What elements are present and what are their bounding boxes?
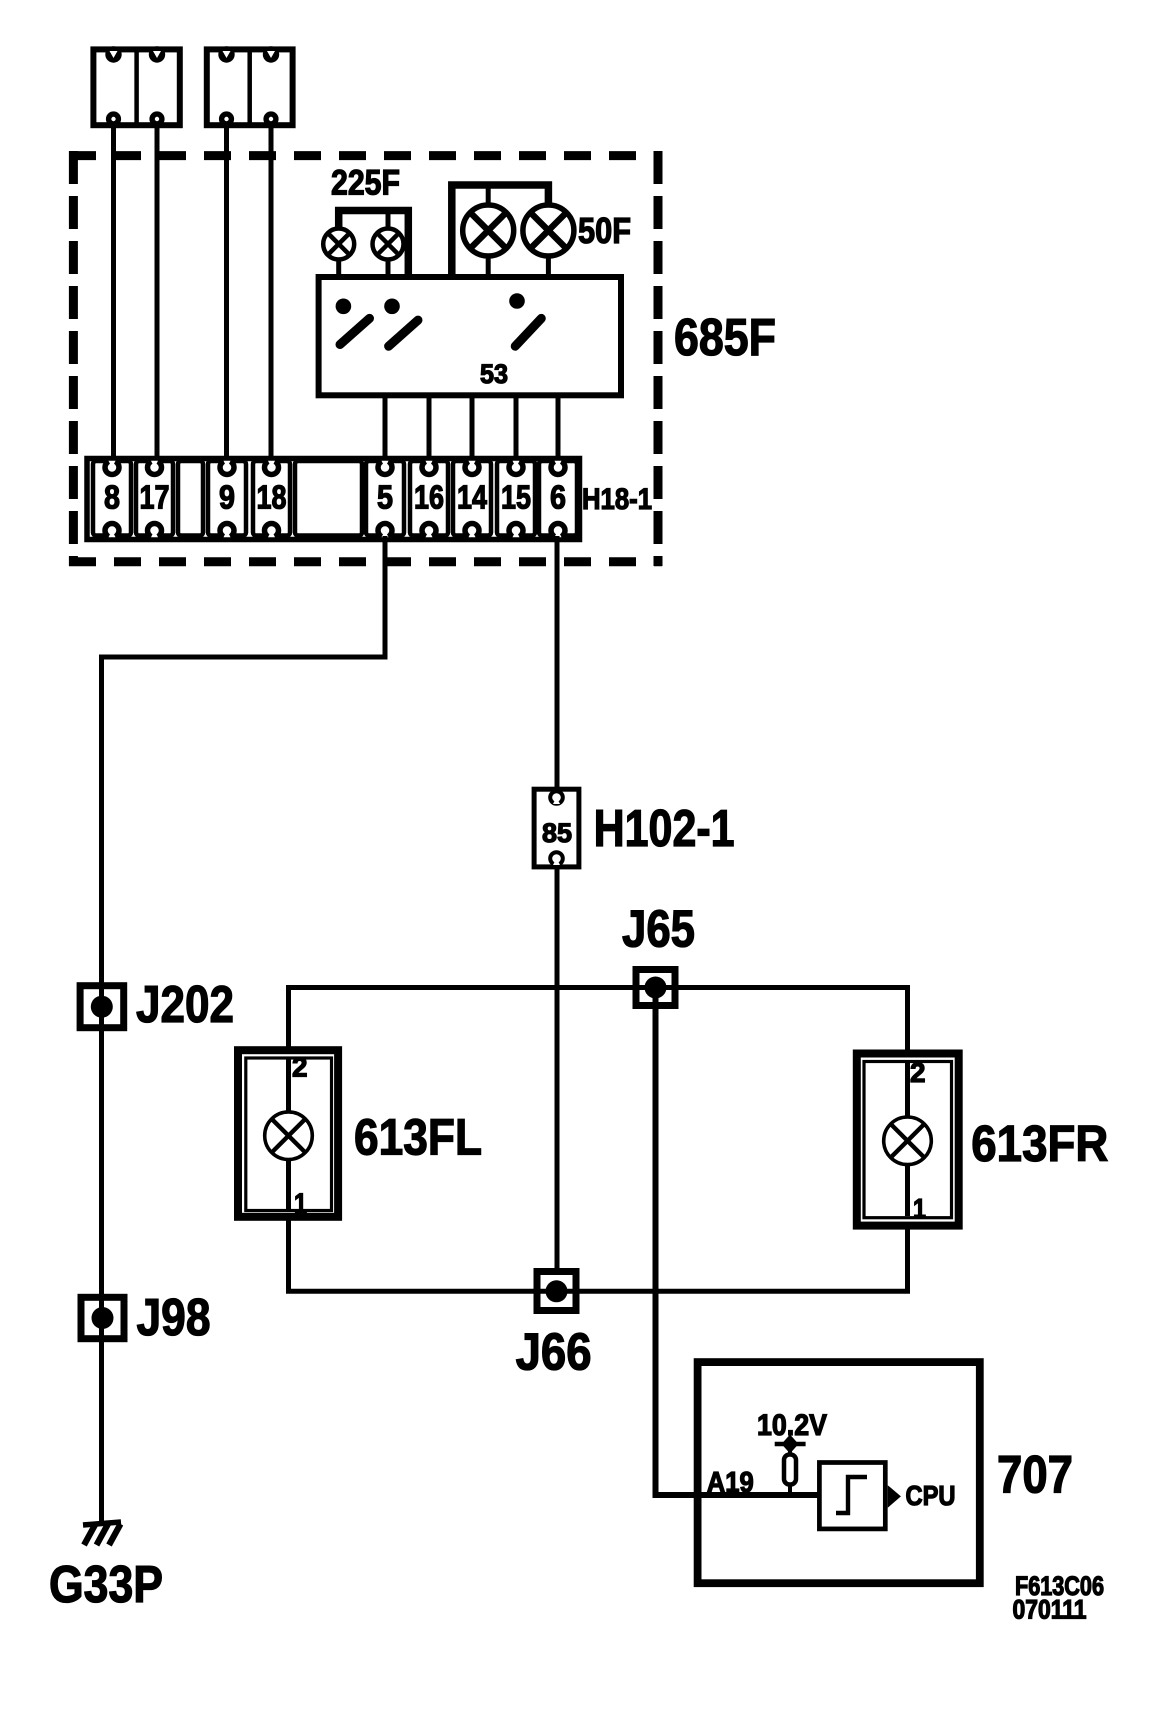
junction J98 — [81, 1297, 124, 1338]
svg-text:5: 5 — [377, 479, 393, 516]
control unit 707 box — [698, 1362, 980, 1583]
svg-text:225F: 225F — [331, 164, 400, 203]
wire block1 left to pin 8 — [111, 122, 116, 460]
wire H102-1 to J66 — [555, 866, 560, 1272]
H18-1 blank cell — [295, 461, 362, 536]
svg-text:2: 2 — [292, 1052, 308, 1083]
wire bracket 50F — [452, 185, 549, 277]
wire H18-1 pin6 to H102-1 — [555, 536, 560, 790]
lamp 225F a — [323, 229, 354, 260]
connector block top-right (pins to H18-1 9/18) — [207, 46, 293, 126]
svg-text:G33P: G33P — [49, 1556, 163, 1614]
wire lamp 50F-b lead — [546, 254, 551, 277]
relay pin wires to H18-1 (5,16,14,15,6) — [385, 395, 558, 460]
svg-text:613FL: 613FL — [354, 1109, 482, 1166]
schmitt trigger symbol — [819, 1463, 885, 1529]
wire J65 line to 613FL and 613FR pin2 — [289, 988, 908, 1056]
connector H18-1 outer box — [87, 459, 580, 540]
H18-1 blank cell — [178, 461, 203, 536]
svg-text:707: 707 — [997, 1446, 1073, 1505]
svg-text:85: 85 — [542, 818, 572, 848]
svg-text:14: 14 — [457, 479, 488, 516]
wire block2 left to pin 9 — [224, 122, 229, 460]
svg-text:613FR: 613FR — [971, 1115, 1108, 1172]
switch contact 3 — [509, 293, 541, 346]
wire lamp 50F-a leads — [486, 185, 491, 277]
svg-text:H18-1: H18-1 — [582, 483, 652, 516]
arrow to CPU — [888, 1485, 901, 1508]
lamp 50F a — [463, 205, 514, 256]
wire J66 line from 613FL pin1 to 613FR pin1 — [289, 1216, 908, 1291]
svg-text:685F: 685F — [674, 309, 776, 367]
H18-1 pin 15 — [497, 461, 535, 538]
H18-1 pin 9 — [208, 461, 246, 538]
junction J65 — [636, 970, 675, 1006]
lamp 225F b — [373, 229, 404, 260]
wire bracket 225F — [339, 211, 409, 278]
wire H18-1 pin5 to J202/J98/G33P — [102, 536, 386, 1523]
unit 685F dashed boundary — [69, 151, 662, 566]
wire block1 right to pin 17 — [155, 122, 160, 460]
svg-text:J66: J66 — [516, 1324, 592, 1382]
svg-text:A19: A19 — [707, 1467, 754, 1499]
svg-text:1: 1 — [294, 1187, 307, 1218]
wire lamp 225F-b leads — [386, 211, 391, 278]
H18-1 pin 8 — [93, 461, 131, 538]
connector H102-1 pin 85 — [534, 789, 579, 867]
svg-text:J98: J98 — [137, 1289, 211, 1347]
H18-1 pin 18 — [253, 461, 290, 538]
svg-text:15: 15 — [501, 479, 531, 516]
wire J65 to 707 pin A19 — [656, 988, 821, 1496]
lamp unit 613FL — [238, 1050, 338, 1218]
lamp unit 613FR — [857, 1054, 959, 1226]
ground G33P symbol — [83, 1522, 121, 1545]
lamp 50F b — [523, 205, 574, 256]
svg-text:070111: 070111 — [1013, 1595, 1087, 1625]
svg-text:17: 17 — [140, 479, 170, 516]
svg-text:J202: J202 — [136, 976, 234, 1034]
wire lamp 225F-a leads — [336, 226, 341, 277]
connector block top-left (pins to H18-1 8/17) — [93, 46, 179, 126]
svg-text:2: 2 — [910, 1057, 926, 1088]
svg-text:1: 1 — [913, 1193, 926, 1224]
svg-text:CPU: CPU — [906, 1480, 956, 1511]
switch contact 2 — [384, 299, 418, 347]
wire block2 right to pin 18 — [269, 122, 274, 460]
junction J202 — [80, 986, 124, 1028]
switch contact 1 — [336, 299, 370, 345]
H18-1 pin 14 — [453, 461, 491, 538]
svg-text:16: 16 — [414, 479, 444, 516]
svg-text:53: 53 — [480, 359, 508, 389]
H18-1 pin 16 — [410, 461, 448, 538]
switch box 53 — [319, 277, 621, 395]
junction J66 — [537, 1272, 576, 1311]
internal reference source symbol — [775, 1435, 806, 1494]
svg-text:8: 8 — [104, 479, 120, 516]
svg-text:50F: 50F — [578, 210, 631, 251]
svg-text:6: 6 — [550, 479, 566, 516]
svg-text:9: 9 — [219, 479, 235, 516]
svg-text:J65: J65 — [622, 901, 695, 959]
H18-1 pin 6 — [539, 461, 577, 538]
svg-text:H102-1: H102-1 — [594, 800, 735, 858]
svg-text:18: 18 — [257, 479, 287, 516]
H18-1 pin 17 — [136, 461, 173, 538]
H18-1 pin 5 — [366, 461, 404, 538]
